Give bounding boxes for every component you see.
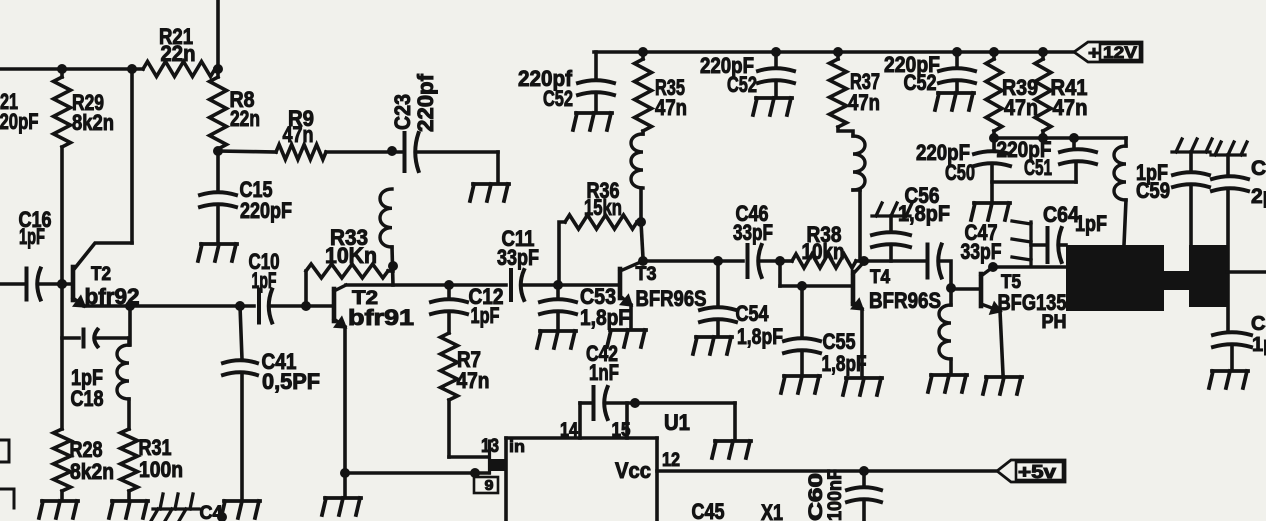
svg-text:14: 14 <box>560 420 578 441</box>
svg-text:47n: 47n <box>655 95 687 120</box>
svg-text:8k2n: 8k2n <box>70 459 114 484</box>
svg-text:bfr91: bfr91 <box>348 305 414 330</box>
svg-text:22n: 22n <box>230 106 260 131</box>
svg-text:BFR96S: BFR96S <box>636 286 707 311</box>
svg-text:2pF: 2pF <box>1251 185 1266 208</box>
svg-text:C52: C52 <box>904 70 937 95</box>
svg-text:220pf: 220pf <box>413 73 438 132</box>
svg-text:C60: C60 <box>806 473 827 521</box>
svg-text:1,8pF: 1,8pF <box>898 201 950 226</box>
svg-text:8k2n: 8k2n <box>72 110 114 135</box>
svg-text:in: in <box>509 437 525 456</box>
svg-text:1,8pF: 1,8pF <box>580 305 630 330</box>
svg-text:47n: 47n <box>848 90 880 115</box>
svg-text:C50: C50 <box>945 160 975 185</box>
svg-text:15kn: 15kn <box>584 195 622 220</box>
svg-text:+5v: +5v <box>1018 462 1056 482</box>
svg-text:1pF: 1pF <box>471 303 500 328</box>
svg-text:1pF: 1pF <box>1075 211 1107 236</box>
svg-text:Vcc: Vcc <box>615 458 651 483</box>
svg-text:33pF: 33pF <box>733 220 773 245</box>
svg-text:12V: 12V <box>1103 43 1138 62</box>
svg-text:C5: C5 <box>1251 313 1266 335</box>
svg-text:+: + <box>1088 43 1100 63</box>
svg-text:10Kn: 10Kn <box>325 243 377 268</box>
svg-text:C23: C23 <box>390 94 415 130</box>
svg-text:1,8pF: 1,8pF <box>822 351 867 376</box>
svg-text:1,8pF: 1,8pF <box>737 324 783 349</box>
svg-text:C59: C59 <box>1136 178 1170 203</box>
svg-text:C54: C54 <box>736 301 770 326</box>
svg-text:PH: PH <box>1042 312 1067 333</box>
svg-text:20pF: 20pF <box>0 109 39 134</box>
svg-text:0,5PF: 0,5PF <box>262 369 320 394</box>
svg-text:47n: 47n <box>457 368 490 393</box>
svg-text:1nF: 1nF <box>589 360 619 385</box>
svg-text:C52: C52 <box>543 86 573 111</box>
svg-text:10kn: 10kn <box>802 239 845 264</box>
svg-text:12: 12 <box>662 450 680 471</box>
svg-text:47n: 47n <box>1053 95 1088 120</box>
svg-text:X1: X1 <box>761 500 783 521</box>
svg-text:1pF: 1pF <box>19 224 45 249</box>
svg-text:C59: C59 <box>1251 157 1266 180</box>
svg-text:C45: C45 <box>692 499 725 521</box>
svg-text:100n: 100n <box>139 457 183 482</box>
svg-text:220pF: 220pF <box>240 198 292 223</box>
svg-text:100nF: 100nF <box>825 469 846 521</box>
svg-text:9: 9 <box>485 477 494 494</box>
svg-text:1pF: 1pF <box>1252 334 1266 356</box>
svg-text:C52: C52 <box>727 72 757 97</box>
svg-text:47n: 47n <box>1004 95 1038 120</box>
svg-text:U1: U1 <box>664 410 690 435</box>
svg-text:1pF: 1pF <box>252 268 277 293</box>
svg-text:T4: T4 <box>870 267 890 288</box>
svg-text:33pF: 33pF <box>497 245 539 270</box>
svg-text:47n: 47n <box>283 122 314 147</box>
svg-text:22n: 22n <box>161 41 196 66</box>
svg-text:BFR96S: BFR96S <box>869 288 941 313</box>
svg-text:C51: C51 <box>1024 155 1052 180</box>
svg-text:T3: T3 <box>636 264 657 285</box>
svg-text:C18: C18 <box>71 386 104 411</box>
svg-text:33pF: 33pF <box>961 239 1002 264</box>
svg-text:T2: T2 <box>91 264 111 285</box>
